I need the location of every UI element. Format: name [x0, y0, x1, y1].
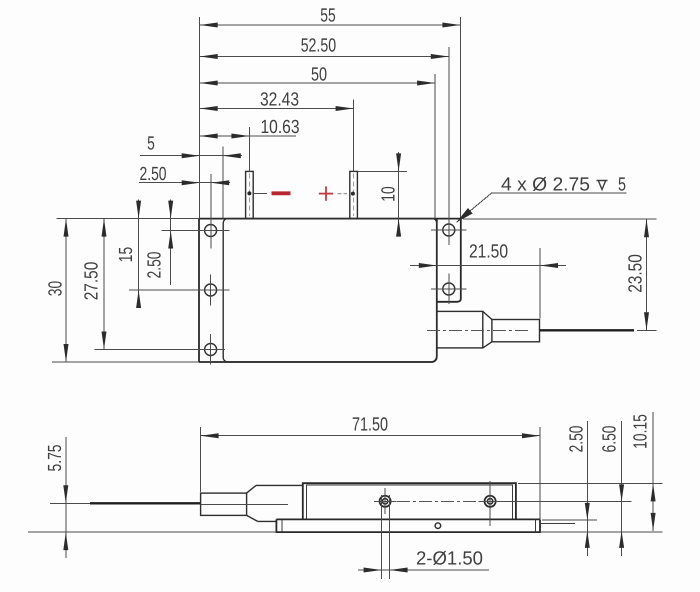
top view: pin 2 solder dot: [351, 192, 355, 196]
top view: mounting hole mid-left: [205, 284, 217, 296]
top view: pin 1 centerline: [248, 166, 250, 217]
top view: base plate outline: [199, 218, 461, 220]
side view: screw 1: [380, 496, 391, 507]
svg-text:15: 15: [116, 247, 137, 262]
svg-text:5.75: 5.75: [45, 445, 66, 472]
dimension 2.50 vertical extension line: [162, 230, 191, 232]
side view: optical fiber extension line: [50, 502, 90, 504]
svg-text:27.50: 27.50: [82, 262, 103, 301]
depth symbol: [597, 181, 608, 190]
top view: hole bottom-left crosshair: [210, 334, 212, 365]
svg-text:2.50: 2.50: [145, 252, 166, 279]
dimension 21.50 extension line: [539, 248, 541, 319]
top view: ferrule sleeve: [492, 320, 540, 342]
svg-text:52.50: 52.50: [301, 36, 336, 57]
top view: hole mid-left crosshair: [210, 275, 212, 306]
svg-text:2.50: 2.50: [566, 426, 587, 453]
top view: mounting hole top-right: [443, 224, 455, 236]
top view: fiber ferrule block: [437, 311, 483, 348]
side view: base plate top: [276, 518, 540, 520]
dimension 10.15 extension line: [518, 482, 662, 484]
side view: base plate inner edges: [282, 519, 535, 532]
top view: fiber axis centerline: [427, 329, 531, 331]
side view: body outline: [303, 483, 516, 519]
svg-text:10: 10: [379, 186, 400, 201]
side view: ferrule centerline: [201, 503, 288, 505]
top view: hole top-left crosshair: [210, 214, 212, 249]
top view: optical fiber: [540, 329, 635, 331]
dimension 2.50 (plate thickness): [586, 421, 588, 556]
dimension 27.50: [103, 219, 105, 350]
dimension 5.75: [65, 437, 67, 558]
dimension 10 (pin height) extension line: [358, 170, 407, 172]
svg-text:50: 50: [311, 65, 327, 86]
top view: right flange with step: [437, 219, 461, 302]
dimension 23.50 extension lines: [463, 218, 657, 220]
side view: optical fiber: [90, 502, 201, 504]
dimension 23.50: [646, 219, 648, 330]
top view: ferrule taper: [483, 311, 492, 348]
dimension 2.50 (hole vertical offset): [170, 200, 172, 286]
svg-text:5: 5: [147, 134, 155, 155]
svg-text:30: 30: [46, 281, 67, 296]
dimension 2.50 (hole offset): [139, 182, 230, 184]
side view: screw axis centerline: [397, 500, 483, 502]
svg-text:55: 55: [320, 6, 335, 27]
side view: snout bottom edge: [258, 520, 277, 522]
dimension 6.50: [621, 421, 623, 556]
svg-text:10.15: 10.15: [630, 414, 651, 449]
dimension 30: [65, 219, 67, 362]
dimension 32.43: [200, 108, 354, 110]
side view: dowel hole: [435, 523, 441, 529]
dimension 2-dia 1.50 extension lines: [381, 495, 383, 579]
dimension 6.50 extension line: [480, 500, 631, 502]
dimension 2.50 extension line: [210, 174, 212, 214]
top view: hole mid-right crosshair: [448, 274, 450, 305]
top view: pin 1 (cathode): [246, 171, 254, 218]
dimension 52.50 extension line: [448, 47, 450, 245]
dimension 10 (pin height): [398, 152, 400, 235]
dimension 32.43 extension line: [353, 100, 355, 172]
side view: screw 1 crosshair: [374, 500, 397, 502]
side view: screw 2 crosshair: [479, 500, 502, 502]
svg-text:71.50: 71.50: [352, 415, 388, 436]
svg-text:6.50: 6.50: [599, 426, 620, 453]
top view: body lid rounded rectangle: [223, 219, 437, 362]
svg-text:2-Ø1.50: 2-Ø1.50: [416, 549, 483, 570]
dimension 10.15: [652, 412, 654, 531]
top view: pin 2 centerline: [353, 166, 355, 217]
dimension 52.50: [200, 56, 449, 58]
svg-text:4 x Ø 2.75: 4 x Ø 2.75: [501, 175, 590, 196]
dimension 30 extension lines: [56, 218, 199, 220]
side view: bottom extension line: [28, 531, 276, 533]
side view: body inner edges: [306, 485, 512, 519]
dimension 21.50: [410, 265, 566, 267]
top view: pin 1 lead line: [253, 192, 267, 194]
dimension 15 extension line: [129, 289, 191, 291]
top view: hole top-right crosshair: [431, 229, 467, 231]
side view: right step edge: [540, 523, 575, 525]
top view: pin 1 solder dot: [247, 191, 251, 195]
dimension 10.63 extension line: [248, 127, 250, 171]
dimension 50 extension line: [434, 74, 436, 219]
dimension 71.50: [201, 435, 540, 437]
dimension 55: [200, 24, 461, 26]
top view: pin 2 lead dashes: [338, 193, 348, 195]
svg-text:5: 5: [618, 175, 626, 196]
top view: mounting hole bottom-left: [205, 344, 217, 356]
dimension 71.50 extension lines: [200, 427, 202, 492]
dimension 10.63: [200, 135, 296, 137]
dimension 55 extension lines: [198, 17, 200, 219]
svg-text:32.43: 32.43: [260, 90, 299, 111]
svg-text:10.63: 10.63: [261, 117, 300, 138]
hole callout leader 4 x dia 2.75 depth 5: [457, 193, 627, 222]
dimension 5 (flange width): [140, 155, 242, 157]
dimension 2.50 (plate thickness) extension line: [542, 519, 597, 521]
plus polarity mark: [319, 193, 333, 195]
side view: ferrule sleeve: [201, 493, 247, 515]
side view: ferrule taper: [247, 485, 258, 521]
top view: mounting hole top-left: [205, 225, 217, 237]
side view: screw 2: [485, 496, 496, 507]
svg-text:2.50: 2.50: [140, 164, 167, 185]
dimension 5 extension line: [222, 147, 224, 219]
dimension 2-dia 1.50: [358, 569, 489, 571]
svg-text:23.50: 23.50: [626, 254, 647, 293]
svg-text:21.50: 21.50: [469, 242, 508, 263]
side view: base plate outline: [276, 519, 540, 532]
side view: snout top edge: [256, 484, 303, 486]
minus polarity mark: [272, 191, 291, 195]
dimension 15: [138, 200, 140, 306]
dimension 27.50 extension line: [94, 349, 190, 351]
top view: pin 2 (anode): [350, 171, 358, 218]
dimension 50: [200, 82, 435, 84]
top view: mounting hole mid-right: [443, 283, 455, 295]
